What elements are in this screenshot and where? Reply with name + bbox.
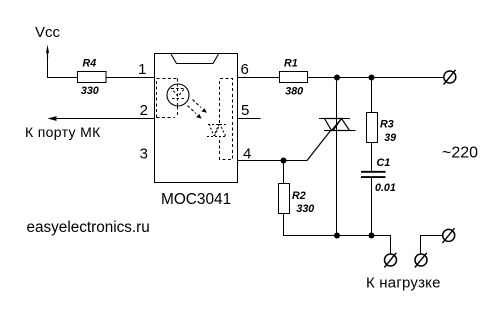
svg-text:MOC3041: MOC3041 [161,191,231,208]
svg-text:380: 380 [285,86,303,98]
svg-text:2: 2 [140,102,148,119]
svg-text:R4: R4 [83,58,97,70]
svg-text:4: 4 [243,146,251,163]
svg-text:R3: R3 [380,119,394,131]
svg-text:5: 5 [241,102,249,119]
svg-text:R2: R2 [292,190,306,202]
svg-text:Vcc: Vcc [35,24,61,41]
svg-text:39: 39 [384,132,396,144]
svg-text:К нагрузке: К нагрузке [366,275,441,292]
svg-text:330: 330 [81,85,99,97]
svg-text:1: 1 [138,61,146,78]
svg-text:6: 6 [241,61,249,78]
svg-text:К порту МК: К порту МК [25,124,101,140]
svg-text:0.01: 0.01 [375,182,396,194]
svg-text:~220: ~220 [442,145,478,162]
svg-text:easyelectronics.ru: easyelectronics.ru [27,219,150,236]
svg-text:C1: C1 [377,157,391,169]
svg-text:3: 3 [140,146,148,163]
svg-text:330: 330 [296,203,314,215]
svg-text:R1: R1 [284,58,298,70]
